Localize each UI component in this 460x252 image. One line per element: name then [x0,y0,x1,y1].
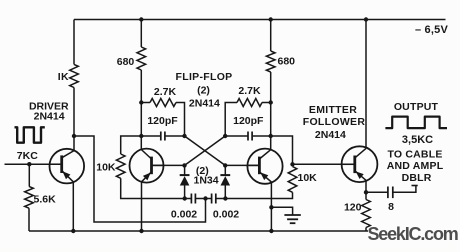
wire ff-right emitter lead [270,182,272,231]
node 2.7K-right junction [269,100,273,104]
node ff-left emitter rail junction [139,229,143,233]
diode D2 1N34 [220,175,230,185]
node right base-net [223,163,227,167]
svg-text:680: 680 [117,56,135,68]
label 5.6K [34,194,57,206]
label 10K left [96,162,116,174]
resistor R7 10K [288,167,297,193]
svg-text:EMITTER: EMITTER [309,104,357,116]
label 120pF left [147,115,178,127]
resistor R5 2.7K [237,99,262,107]
wire 0.002 caps line [185,198,226,200]
node 10K-right top junction [290,162,294,166]
output waveform symbol [385,117,447,129]
wire 10K-left bottom bend [121,178,185,198]
wire 2.7K-right right lead [262,102,271,104]
wire 2.7K-left right lead [176,103,185,137]
svg-text:2N414: 2N414 [315,129,346,141]
label TO CABLE [387,149,442,161]
wire 680-left top lead [140,20,142,48]
input waveform symbol [15,127,45,142]
svg-text:1N34: 1N34 [194,175,219,187]
svg-text:7KC: 7KC [17,150,38,162]
transistor Q4 emitter follower 2N414 [342,146,378,182]
label 2N414 driver [34,111,65,123]
wire output terminal [393,186,418,193]
node caps left junction [183,196,187,200]
node ff-right emitter rail junction [269,229,273,233]
svg-text:FOLLOWER: FOLLOWER [303,116,366,128]
svg-text:120pF: 120pF [233,115,264,127]
svg-text:DBLR: DBLR [402,172,432,184]
node ff-right emitter ground tap [269,205,273,209]
node EF collector rail junction [364,17,368,21]
label 10K right [298,172,318,184]
svg-text:2N414: 2N414 [189,98,220,110]
wire 680-right top lead [270,20,272,52]
svg-text:10K: 10K [298,172,318,184]
diode D1 1N34 [180,175,190,185]
capacitor C5 8 [388,187,393,199]
wire left base lead [152,164,185,166]
node EF emitter junction [364,190,368,194]
transistor Q3 flip-flop right 2N414 [247,149,282,184]
svg-text:8: 8 [388,201,394,213]
label 1K [58,71,69,83]
wire 10K-left top bend [121,136,142,154]
node 120pF-right junction [269,134,273,138]
capacitor C4 0.002 [212,194,216,204]
capacitor C3 0.002 [191,194,195,204]
wire ground stem [271,207,292,215]
label DRIVER [29,101,69,113]
node driver collector junction [72,134,76,138]
svg-text:OUTPUT: OUTPUT [394,101,439,113]
node left collector-net [182,134,186,138]
label 120pF right [233,115,264,127]
transistor Q2 flip-flop left 2N414 [130,149,164,183]
label 1N34 [194,175,219,187]
wire 5.6K top lead [28,164,30,186]
svg-text:10K: 10K [96,162,116,174]
label 8 [388,201,394,213]
label (2) flip-flop [197,85,210,97]
wire EF base lead [293,163,355,165]
wire 120pF-left [141,135,184,137]
label 7KC [17,150,38,162]
wire 120 top lead [365,192,367,199]
wire 1K top lead [73,20,75,65]
label -6,5V [415,24,448,36]
wire left diode bottom lead [184,186,186,199]
svg-text:3,5KC: 3,5KC [402,134,433,146]
label 0.002 right [213,209,239,221]
wire driver emitter lead [72,182,74,231]
svg-text:120: 120 [344,202,362,214]
wire bottom rail [29,230,368,232]
wire 1K bottom to driver collector [73,88,75,151]
node 680-right rail junction [269,17,273,21]
wire 120 bottom lead [365,228,367,232]
node right collector-net [223,134,227,138]
capacitor C1 120pF [161,132,165,141]
wire cross-couple left-to-right [185,136,226,165]
svg-text:– 6,5V: – 6,5V [415,24,448,36]
svg-text:(2): (2) [197,85,210,97]
label 680 right [278,56,296,68]
resistor R8 5.6K [25,186,34,208]
wire 5.6K bottom lead [28,208,30,231]
wire 680-right bottom [270,72,272,150]
label 2.7K left [154,86,177,98]
wire 120pF-right [225,135,271,137]
wire ff-left emitter lead [141,182,143,231]
svg-text:IK: IK [58,71,69,83]
resistor R9 120 [362,200,371,228]
svg-text:120pF: 120pF [147,115,178,127]
label 0.002 left [171,209,197,221]
wire right diode top lead [224,165,226,175]
node left base-net [182,163,186,167]
node 680-left rail junction [139,17,143,21]
label 680 left [117,56,135,68]
svg-text:2N414: 2N414 [34,111,65,123]
wire EF emitter to cap [366,191,388,193]
resistor R4 2.7K [150,99,176,107]
label FLIP-FLOP [176,71,233,83]
transistor Q1 driver 2N414 [50,149,85,184]
node 120pF-left junction [139,134,143,138]
capacitor C2 120pF [248,132,252,141]
node 2.7K-left junction [139,100,143,104]
label 2N414 EF [315,129,346,141]
wire left diode top lead [184,165,186,175]
svg-text:TO CABLE: TO CABLE [387,149,442,161]
svg-text:FLIP-FLOP: FLIP-FLOP [176,71,233,83]
svg-text:0.002: 0.002 [213,209,239,221]
wire driver collector tap [74,136,206,222]
node caps center junction [203,196,207,200]
wire input lead [5,163,62,165]
label 2N414 flip-flop [189,98,220,110]
svg-text:680: 680 [278,56,296,68]
label AND AMPL [387,160,444,172]
resistor R6 10K [116,154,125,178]
svg-text:0.002: 0.002 [171,209,197,221]
label 2.7K right [238,85,261,97]
node caps right junction [223,196,227,200]
wire 2.7K-left left lead [141,102,150,104]
resistor R1 1K [70,64,79,87]
wire 10K-right bottom bend [225,192,292,198]
svg-text:2.7K: 2.7K [154,86,177,98]
label (2) diodes [196,165,209,177]
svg-text:5.6K: 5.6K [34,194,57,206]
label DBLR [402,172,432,184]
svg-text:2.7K: 2.7K [238,85,261,97]
label FOLLOWER [303,116,366,128]
svg-text:SeekIC.com: SeekIC.com [368,224,458,244]
resistor R3 680 [266,51,275,72]
resistor R2 680 [137,47,146,70]
wire 10K-right top bend [271,136,293,164]
wire right base lead [225,164,259,166]
wire top supply rail -6.5V [74,19,446,21]
wire 680-left bottom [140,70,142,150]
wire right diode bottom lead [224,186,226,199]
label EMITTER [309,104,357,116]
ground symbol [284,215,300,223]
wire 2.7K-right left lead [225,103,237,137]
svg-text:AND AMPL: AND AMPL [387,160,444,172]
wire cross-couple right-to-left [185,136,226,165]
node driver emitter rail junction [71,229,75,233]
wire EF collector lead [365,20,367,149]
watermark SeekIC.com [368,224,458,244]
label OUTPUT [394,101,439,113]
label 3,5KC [402,134,433,146]
node input junction [27,162,31,166]
label 120 [344,202,362,214]
wire EF emitter lead [365,180,367,192]
